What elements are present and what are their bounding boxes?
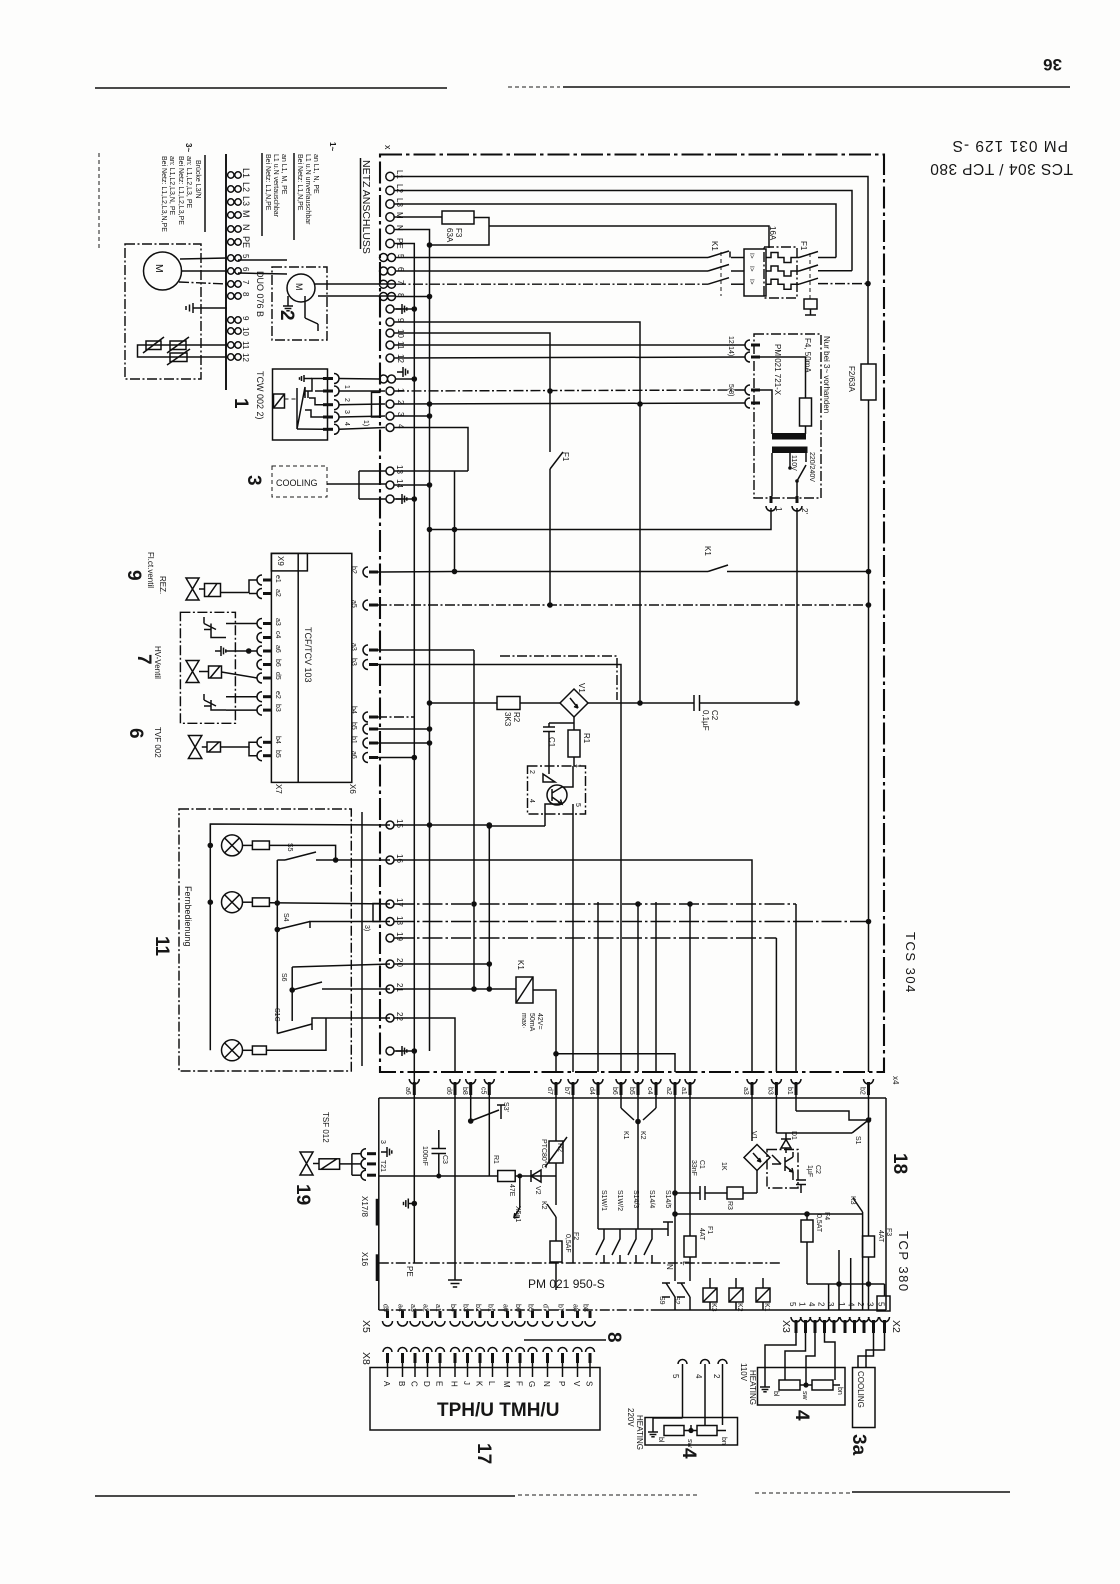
svg-text:a3: a3 [350, 643, 357, 651]
svg-text:a2: a2 [422, 1304, 429, 1312]
svg-text:bn: bn [720, 1437, 727, 1445]
net b3 to S1 [776, 1095, 871, 1145]
fuse F3 63A [395, 211, 770, 248]
svg-text:4: 4 [807, 1302, 816, 1307]
svg-text:50mA: 50mA [528, 1013, 535, 1032]
callout 8 [524, 1332, 624, 1343]
terminal strip 1 circles and labels [228, 168, 251, 362]
svg-text:12: 12 [241, 353, 250, 362]
wires X2 to cooling [858, 1333, 885, 1368]
svg-text:S1W/1: S1W/1 [600, 1190, 607, 1211]
svg-text:4: 4 [343, 422, 350, 426]
X7 cups group2 a3 c4 a6 b6 d5 [257, 618, 281, 683]
wire d4 to comb [597, 1095, 599, 1229]
svg-text:1µF: 1µF [806, 1165, 813, 1177]
svg-text:K1: K1 [763, 1303, 770, 1312]
svg-text:L: L [487, 1381, 496, 1386]
net a1 / L with fuse F1 4AT [681, 1095, 713, 1281]
X1 row labels [395, 170, 405, 488]
TCW 002 relay module box [273, 369, 328, 440]
svg-text:HV-Ventil: HV-Ventil [153, 646, 162, 679]
svg-text:F4: F4 [823, 1212, 830, 1220]
note block 3~ (mains variants) [160, 143, 205, 232]
svg-text:R1: R1 [492, 1155, 499, 1164]
svg-text:11: 11 [241, 341, 250, 350]
svg-text:2: 2 [817, 1302, 826, 1307]
switch S5 row16 [277, 843, 390, 863]
svg-text:5: 5 [877, 1302, 886, 1307]
svg-text:TCS 304: TCS 304 [903, 932, 918, 994]
svg-text:M: M [241, 210, 251, 218]
svg-text:X17/8: X17/8 [360, 1196, 369, 1217]
svg-text:C3: C3 [441, 1155, 448, 1164]
svg-text:bn: bn [836, 1387, 843, 1395]
svg-text:Bei Netz: L1,L2,L3,PE: Bei Netz: L1,L2,L3,PE [177, 156, 184, 225]
svg-text:M: M [153, 264, 165, 273]
ground glyphs at gnd rows [396, 304, 407, 314]
line coil return / F4 [675, 1211, 863, 1284]
svg-text:TSF 012: TSF 012 [321, 1112, 330, 1143]
wire row14 to N bus [395, 484, 430, 486]
svg-text:I>: I> [748, 279, 755, 285]
wire bump1 return [430, 508, 772, 530]
svg-text:Bei Netz: L1,N,PE: Bei Netz: L1,N,PE [264, 154, 271, 211]
svg-text:1: 1 [837, 1302, 846, 1307]
wire b7 down [572, 1095, 574, 1263]
svg-text:c4: c4 [646, 1087, 653, 1095]
svg-text:b4: b4 [449, 1304, 456, 1312]
svg-text:a4: a4 [397, 1304, 404, 1312]
left margin fold line [98, 153, 100, 248]
COOLING box 3 [272, 466, 327, 497]
svg-text:20: 20 [395, 958, 404, 967]
svg-text:L1 u.N vertauschbar: L1 u.N vertauschbar [272, 154, 279, 218]
svg-text:d5: d5 [274, 672, 281, 680]
svg-text:19: 19 [395, 932, 404, 941]
svg-text:4: 4 [694, 1374, 703, 1379]
svg-text:22: 22 [395, 1012, 404, 1021]
svg-text:C2: C2 [710, 710, 719, 721]
transformer output bump 1 [766, 453, 783, 512]
wire row6 to K1 [396, 270, 708, 272]
svg-text:5(8): 5(8) [727, 384, 734, 396]
svg-text:a6: a6 [404, 1087, 411, 1095]
svg-text:a6: a6 [502, 1304, 509, 1312]
wire row19 to X4 b3 [394, 937, 776, 939]
svg-text:b3: b3 [766, 1087, 773, 1095]
transformer primary bar [760, 390, 806, 440]
net a2 / N [665, 1095, 678, 1281]
svg-text:7: 7 [241, 280, 250, 285]
svg-text:TVF 002: TVF 002 [153, 727, 162, 758]
svg-text:K2: K2 [639, 1131, 646, 1140]
svg-text:X3: X3 [780, 1320, 792, 1333]
svg-text:K3: K3 [849, 1196, 856, 1205]
svg-text:4: 4 [528, 799, 535, 803]
svg-text:K3: K3 [710, 1303, 717, 1312]
fuse F2 0,5AF [550, 1232, 579, 1290]
svg-text:TCS 304 / TCP 380: TCS 304 / TCP 380 [930, 160, 1073, 177]
svg-text:K2: K2 [736, 1303, 743, 1312]
input line R1 V2 [379, 1155, 556, 1197]
valve 9 Fl.ct.ventil REZ [123, 552, 257, 600]
svg-text:K1: K1 [622, 1131, 629, 1140]
svg-text:R3: R3 [726, 1201, 733, 1210]
transformer output bump 2 [792, 496, 809, 514]
svg-text:R1: R1 [582, 733, 591, 744]
svg-text:d7: d7 [542, 1304, 549, 1312]
svg-text:3a: 3a [848, 1434, 869, 1456]
note block 1~ [262, 142, 337, 240]
svg-text:b6: b6 [611, 1087, 618, 1095]
svg-text:3: 3 [826, 1302, 835, 1307]
svg-text:TCW 002 2): TCW 002 2) [255, 371, 265, 420]
svg-text:c5: c5 [479, 1087, 486, 1095]
X7 cups group4 b4 b5 [257, 736, 281, 761]
svg-text:c4: c4 [274, 631, 281, 639]
lamp H2 [208, 892, 391, 913]
emitter wire to bus [487, 823, 546, 992]
svg-text:F3: F3 [885, 1228, 892, 1236]
svg-text:a5: a5 [350, 600, 357, 608]
thermistor R2 PTC [540, 1095, 567, 1202]
svg-text:C1: C1 [547, 737, 556, 748]
svg-text:S9: S9 [658, 1296, 665, 1305]
switch S1C row22 [273, 1008, 390, 1034]
X1 terminal circles [380, 172, 396, 503]
svg-text:PE: PE [405, 1266, 414, 1277]
labels 3 / T21 / gnd [379, 1140, 392, 1172]
svg-text:3: 3 [343, 410, 350, 414]
svg-text:sw: sw [801, 1391, 808, 1401]
svg-text:bl: bl [772, 1391, 779, 1397]
svg-text:7: 7 [133, 654, 154, 665]
svg-text:e2: e2 [274, 691, 281, 699]
svg-text:6: 6 [125, 728, 146, 739]
svg-text:b8: b8 [461, 1087, 468, 1095]
svg-text:10: 10 [241, 327, 250, 336]
svg-text:R2: R2 [512, 712, 521, 723]
wire row16 to X4 a3 [394, 860, 752, 1072]
svg-text:an: L1,L2,L3, PE: an: L1,L2,L3, PE [185, 156, 192, 208]
sub-board dash-dot corner [500, 656, 617, 700]
svg-text:5: 5 [671, 1374, 680, 1379]
capacitor C2 1uF low [796, 1165, 821, 1193]
svg-text:C2: C2 [814, 1165, 821, 1174]
svg-text:1: 1 [230, 398, 251, 409]
svg-text:Nur bei 3~ vorhanden: Nur bei 3~ vorhanden [822, 336, 831, 413]
svg-text:2: 2 [276, 310, 297, 321]
svg-text:PM 031 129 -S: PM 031 129 -S [952, 137, 1068, 154]
switch S2 [673, 1283, 690, 1310]
svg-text:1~: 1~ [328, 142, 337, 151]
X7 cups group1 e1 a2 [257, 575, 281, 599]
wire gnd row b to PE bus [394, 498, 414, 500]
svg-text:8: 8 [603, 1332, 624, 1343]
svg-text:DUO 076 B: DUO 076 B [255, 271, 265, 317]
svg-text:9: 9 [123, 570, 144, 581]
main frame dash-dot border [380, 155, 884, 1073]
wire L1 loop [395, 177, 869, 284]
edge cups b4 b5 b1 a6 [350, 706, 430, 763]
svg-text:COOLING: COOLING [856, 1371, 865, 1408]
motor M compressor [144, 252, 228, 290]
wire b8 switch S3' [468, 1095, 509, 1124]
bridge V1 low [744, 1095, 770, 1193]
svg-text:b1: b1 [350, 736, 357, 744]
connector X16 [360, 1252, 377, 1281]
svg-text:d7: d7 [546, 1087, 553, 1095]
diode D1 [781, 1131, 797, 1153]
svg-text:max·: max· [520, 1013, 527, 1029]
ground TCW [300, 375, 313, 382]
svg-text:D: D [422, 1381, 431, 1387]
svg-text:63A: 63A [445, 228, 454, 243]
svg-text:L3: L3 [241, 196, 251, 206]
X5 cups and X8 cups [383, 1311, 596, 1377]
svg-text:A: A [382, 1381, 391, 1387]
contacts K1 K2 aux [621, 1095, 656, 1229]
svg-text:4: 4 [791, 1410, 812, 1421]
switch DUO thermal contact [305, 296, 396, 331]
svg-text:an L1, N, PE: an L1, N, PE [312, 154, 319, 194]
net b1 staircase [796, 1095, 869, 1120]
svg-text:C1: C1 [698, 1160, 705, 1169]
svg-text:b4: b4 [274, 736, 281, 744]
svg-text:b7: b7 [557, 1304, 564, 1312]
svg-text:110V: 110V [739, 1363, 748, 1382]
wire row1 to transformer dash-dot [395, 390, 746, 391]
bottom rule [95, 1495, 515, 1497]
svg-text:F1: F1 [706, 1226, 713, 1234]
bracket rows 17/18 [363, 904, 381, 932]
line C1 R3 [675, 1160, 757, 1210]
svg-text:1K: 1K [720, 1162, 727, 1171]
DUO 076 B module box [272, 267, 327, 340]
svg-text:X7: X7 [274, 784, 283, 794]
svg-text:PM 021 950-S: PM 021 950-S [528, 1277, 605, 1291]
svg-text:b4: b4 [350, 706, 357, 714]
svg-text:Brücke L3/N: Brücke L3/N [194, 160, 201, 199]
thermal protector 2 [144, 349, 227, 365]
valve TSF 012 [292, 1112, 376, 1205]
svg-text:E: E [435, 1381, 444, 1386]
svg-text:Bei Netz: L1,N,PE: Bei Netz: L1,N,PE [296, 154, 303, 211]
wire bump2 down [796, 508, 798, 703]
X5 pin labels [382, 1304, 589, 1312]
svg-text:a8: a8 [572, 1304, 579, 1312]
wire row18 to right bus [394, 921, 869, 923]
valve 7 HV-Ventil box [133, 612, 257, 723]
svg-text:F1: F1 [799, 241, 808, 251]
PE line a6 [404, 1095, 418, 1277]
svg-text:V2: V2 [534, 1186, 541, 1195]
svg-text:3): 3) [363, 925, 370, 931]
svg-text:S1W/2: S1W/2 [616, 1190, 623, 1211]
lamp H3 [222, 1018, 327, 1061]
svg-text:d6: d6 [445, 1087, 452, 1095]
board outline [379, 1098, 886, 1310]
svg-text:PE: PE [241, 236, 251, 248]
svg-text:0,1µF: 0,1µF [701, 710, 710, 731]
module box [271, 553, 351, 782]
wire row3 to N bus [395, 415, 430, 417]
svg-text:G: G [527, 1381, 536, 1387]
svg-text:HEATING: HEATING [748, 1370, 757, 1405]
relay contact K1 aux [455, 546, 869, 572]
svg-text:an: L1,L2,L3,N, PE: an: L1,L2,L3,N, PE [168, 156, 175, 215]
vertical d4 [597, 902, 599, 1072]
wire row10 down with switch F1 [395, 333, 551, 452]
svg-text:S4: S4 [282, 913, 289, 922]
wire row4 jumper to row13 [395, 428, 469, 472]
wire row8 to N bus [396, 296, 430, 298]
svg-text:1): 1) [362, 420, 369, 426]
svg-text:L1 u.N unverlauschbar: L1 u.N unverlauschbar [304, 154, 311, 225]
ground DUO [283, 296, 293, 311]
svg-text:3: 3 [243, 475, 264, 486]
wire L2 loop [395, 191, 853, 271]
svg-text:a2: a2 [274, 589, 281, 597]
opto coupler transistor box [528, 764, 586, 1072]
contact K3 [849, 1196, 863, 1310]
svg-text:HEATING: HEATING [635, 1415, 644, 1450]
svg-text:0,5AF: 0,5AF [564, 1234, 571, 1253]
svg-text:33nF: 33nF [690, 1160, 697, 1176]
X1 lower circles 15-22 [386, 819, 404, 1055]
svg-text:N: N [241, 224, 251, 231]
X9 label box [271, 553, 307, 571]
valve 6 TVF 002 [125, 727, 257, 759]
svg-text:a3: a3 [274, 618, 281, 626]
compressor unit 1 dash-dot box [125, 244, 201, 379]
svg-text:S14/5: S14/5 [664, 1190, 671, 1208]
svg-text:5: 5 [788, 1302, 797, 1307]
svg-text:Fernbedienung: Fernbedienung [183, 886, 193, 947]
svg-text:17: 17 [473, 1443, 494, 1464]
svg-text:S14/4: S14/4 [648, 1190, 655, 1208]
svg-text:b5: b5 [274, 750, 281, 758]
edge cup b2 [350, 566, 455, 577]
wire row5 to K1 [396, 257, 708, 259]
svg-text:d4: d4 [588, 1087, 595, 1095]
edge cup b3 wire [350, 658, 621, 1072]
wire row2 to transformer [395, 403, 746, 404]
wire row9 down [395, 322, 641, 703]
svg-text:a6: a6 [274, 645, 281, 653]
N bus vertical [395, 230, 433, 1052]
svg-text:L: L [681, 1261, 690, 1266]
svg-text:K2: K2 [540, 1201, 547, 1210]
switch S4 row18 [275, 913, 391, 932]
svg-text:1: 1 [343, 385, 350, 389]
svg-text:K1: K1 [516, 960, 525, 970]
svg-text:COOLING: COOLING [276, 478, 318, 488]
svg-text:18: 18 [889, 1153, 910, 1174]
wire row21 to K1 coil [394, 988, 516, 990]
svg-text:I>: I> [748, 266, 755, 272]
svg-text:2': 2' [800, 508, 809, 514]
svg-text:1: 1 [574, 764, 581, 768]
svg-text:P: P [557, 1381, 566, 1386]
contactor K1 main contacts [708, 241, 744, 296]
svg-text:9: 9 [241, 316, 250, 321]
arrow X5o1 [514, 1176, 521, 1222]
svg-text:b6: b6 [514, 1304, 521, 1312]
svg-text:2: 2 [528, 770, 535, 774]
svg-text:R2: R2 [556, 1143, 563, 1152]
svg-text:B: B [397, 1381, 406, 1386]
svg-text:F1: F1 [561, 452, 570, 462]
transformer input cups 5(8) [727, 384, 760, 408]
svg-text:Fl.ct.ventil: Fl.ct.ventil [146, 552, 155, 588]
svg-text:NETZ ANSCHLUSS: NETZ ANSCHLUSS [360, 160, 372, 254]
svg-text:L2: L2 [241, 182, 251, 192]
svg-text:b3: b3 [350, 658, 357, 666]
svg-text:16: 16 [395, 854, 404, 863]
svg-text:V1: V1 [750, 1131, 757, 1140]
svg-text:2: 2 [856, 1302, 865, 1307]
svg-text:L1: L1 [395, 170, 404, 179]
svg-text:b1: b1 [487, 1304, 494, 1312]
svg-text:Bei Netz: L1,L2,L3,N,PE: Bei Netz: L1,L2,L3,N,PE [160, 156, 167, 232]
svg-text:an L1, M, PE: an L1, M, PE [280, 154, 287, 195]
svg-text:J: J [462, 1381, 471, 1385]
wire c5 to R1 line [488, 1095, 490, 1176]
svg-text:4AT: 4AT [877, 1230, 884, 1243]
svg-text:X5o1: X5o1 [514, 1206, 521, 1222]
relay coil TCW [274, 394, 298, 408]
capacitor C3 100nF [421, 1130, 448, 1179]
transformer input cups 12(14) [727, 336, 760, 362]
fuse F4 [760, 357, 812, 434]
lamp supply bus [210, 824, 390, 845]
thermostat comb S1W1-5 [596, 1190, 673, 1263]
terminal strip 1 bar [225, 154, 227, 390]
svg-text:3: 3 [379, 1140, 386, 1144]
svg-text:F3: F3 [454, 228, 463, 238]
svg-text:42V=: 42V= [536, 1013, 543, 1030]
svg-text:1: 1 [798, 1302, 807, 1307]
svg-text:F: F [515, 1381, 524, 1386]
svg-text:18: 18 [395, 916, 404, 925]
svg-text:3~: 3~ [184, 143, 193, 152]
wire row11 to transformer [395, 344, 746, 346]
svg-text:N: N [665, 1264, 674, 1270]
svg-text:V1: V1 [577, 683, 586, 693]
secondary taps 110V 220/240V selector [788, 452, 815, 496]
vertical c4 [655, 902, 657, 1072]
svg-text:b2: b2 [350, 566, 357, 574]
PE rail [379, 1262, 782, 1264]
svg-text:H: H [450, 1381, 459, 1387]
svg-text:F4, 50mA: F4, 50mA [803, 338, 812, 373]
relay coils K3 K2 K1 low [703, 1278, 770, 1312]
svg-text:a3: a3 [409, 1304, 416, 1312]
svg-text:I>: I> [748, 253, 755, 259]
svg-text:S2: S2 [673, 1296, 680, 1305]
svg-text:V: V [572, 1381, 581, 1387]
svg-text:0,5AT: 0,5AT [815, 1214, 822, 1233]
opto sub-circuit C1 R1 [543, 717, 591, 766]
thermal protector 1 [138, 337, 228, 357]
wire row20 [394, 963, 489, 965]
svg-text:15: 15 [395, 819, 404, 828]
svg-text:bl: bl [657, 1437, 664, 1443]
svg-text:a2: a2 [665, 1087, 672, 1095]
svg-text:X6: X6 [348, 784, 357, 794]
svg-text:x: x [383, 145, 393, 150]
